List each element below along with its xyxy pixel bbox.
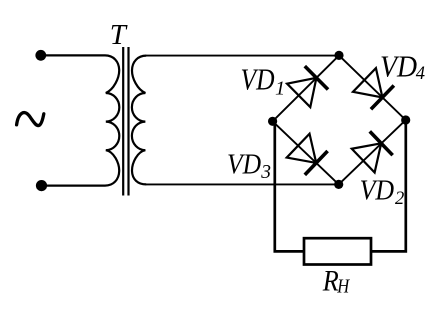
- svg-text:R: R: [322, 265, 339, 298]
- svg-text:3: 3: [260, 162, 271, 183]
- svg-text:VD: VD: [380, 50, 417, 84]
- svg-text:T: T: [110, 19, 128, 51]
- svg-text:H: H: [336, 276, 350, 297]
- svg-text:VD: VD: [227, 148, 261, 180]
- svg-text:VD: VD: [241, 62, 275, 97]
- svg-text:VD: VD: [360, 175, 395, 207]
- svg-text:2: 2: [395, 189, 404, 209]
- svg-text:4: 4: [416, 64, 425, 84]
- svg-text:1: 1: [275, 77, 285, 99]
